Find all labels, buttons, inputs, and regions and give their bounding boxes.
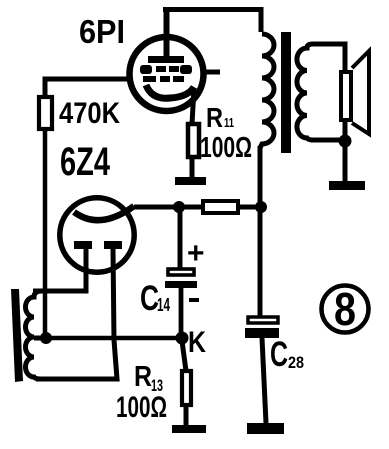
- resistor R13: [182, 371, 191, 405]
- capacitor C14 plates: [168, 269, 194, 275]
- svg-text:28: 28: [288, 353, 304, 372]
- svg-text:100Ω: 100Ω: [200, 132, 252, 164]
- tube V1 6P1 envelope: [130, 37, 204, 111]
- 6Z4 cathode arc: [74, 206, 134, 220]
- 6Z4 right anode plate: [104, 241, 122, 249]
- svg-text:6Z4: 6Z4: [60, 140, 111, 184]
- svg-text:K: K: [188, 326, 206, 359]
- T1 center tap wire: [34, 336, 46, 341]
- ground below speaker: [329, 181, 365, 190]
- transformer T1 winding: [26, 291, 43, 379]
- ground below R13: [172, 425, 206, 433]
- speaker cone: [352, 51, 369, 134]
- figure number circled 8: [322, 286, 369, 333]
- junction dot A: [173, 201, 185, 213]
- resistor R13 lead from K: [182, 341, 186, 371]
- wire secondary bottom to speaker: [311, 138, 345, 143]
- wire plate lead + top rail to output transformer: [164, 9, 170, 59]
- junction dot B: [255, 201, 267, 213]
- svg-text:14: 14: [157, 295, 170, 315]
- 6Z4 left anode plate: [74, 241, 92, 249]
- capacitor C14 bottom lead: [179, 288, 184, 338]
- resistor filter (unlabeled): [203, 201, 238, 213]
- wire B+ vertical: [258, 146, 263, 317]
- 6P1 cathode arc: [146, 85, 194, 98]
- 6P1 anode plate: [148, 56, 184, 63]
- tube V2 6Z4 envelope: [60, 198, 134, 272]
- svg-text:+: +: [187, 237, 205, 270]
- wire filter resistor to B+ node: [240, 205, 260, 210]
- 6P1 cathode lead to R11: [192, 88, 194, 124]
- label -: [189, 298, 199, 302]
- resistor R11: [188, 124, 199, 157]
- ground below C28: [247, 423, 284, 434]
- wire 6Z4 cathode output: [134, 205, 180, 210]
- svg-text:6PI: 6PI: [79, 13, 125, 50]
- 6P1 control grid (dashed): [143, 76, 184, 82]
- 6P1 screen grid (dashed): [140, 65, 192, 74]
- svg-text:C: C: [270, 335, 288, 374]
- svg-text:470K: 470K: [59, 97, 120, 130]
- junction dot speaker: [339, 135, 352, 148]
- 6Z4 right anode lead to transformer bottom: [36, 249, 117, 379]
- wire grid to 470K: [45, 79, 130, 97]
- svg-text:11: 11: [224, 115, 234, 130]
- wire secondary top to speaker: [311, 44, 345, 71]
- junction dot tap: [40, 332, 52, 344]
- transformer T2 output primary winding: [260, 34, 274, 148]
- svg-text:8: 8: [334, 283, 356, 335]
- ground below R11: [175, 177, 206, 185]
- wire 470K down to tap junction: [43, 130, 48, 336]
- transformer T2 secondary winding: [297, 44, 313, 140]
- junction dot K: [176, 332, 189, 345]
- wire to filter resistor: [180, 205, 201, 210]
- capacitor C28 plates: [248, 317, 278, 323]
- svg-text:R: R: [134, 361, 152, 393]
- svg-text:R: R: [206, 102, 223, 133]
- 6P1 screen stub wire: [205, 70, 220, 75]
- resistor R11 lead to ground: [190, 157, 195, 179]
- capacitor C14 top lead: [178, 207, 183, 269]
- wire tap to K: [46, 336, 182, 341]
- capacitor C28 bottom lead: [262, 338, 266, 423]
- svg-text:100Ω: 100Ω: [116, 391, 167, 424]
- resistor R13 lead to ground: [184, 406, 189, 426]
- 6Z4 left anode lead to transformer top: [33, 249, 86, 291]
- resistor 470K: [39, 97, 52, 129]
- transformer T2 core: [281, 32, 291, 153]
- speaker lead down: [343, 122, 348, 183]
- speaker driver: [341, 72, 351, 120]
- transformer T1 power core: [11, 289, 23, 382]
